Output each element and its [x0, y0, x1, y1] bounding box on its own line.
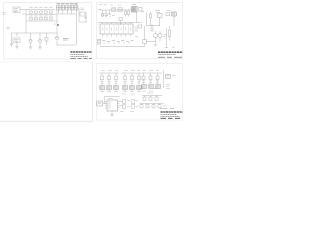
wire top rail A	[99, 72, 119, 74]
cell X1 row	[120, 100, 131, 108]
cap bank C47	[158, 104, 161, 108]
sheet3 right edge	[92, 62, 94, 121]
label top right corner	[75, 4, 78, 6]
wire transformer stubs	[102, 90, 139, 92]
node junction A	[57, 24, 59, 26]
cap bank C41	[143, 96, 146, 101]
ground gnd41	[110, 115, 113, 117]
resistor R3	[44, 7, 47, 13]
wire right drop	[144, 26, 146, 47]
transistor Q22	[158, 31, 162, 42]
transformer T41	[100, 86, 105, 90]
connector J1	[13, 7, 20, 13]
cap bank C46	[152, 104, 155, 108]
capacitor C23	[150, 12, 152, 20]
voltage regulator U2	[13, 38, 20, 43]
transformer T1	[132, 7, 138, 13]
relay K21	[172, 12, 176, 16]
cap bank C43	[155, 96, 158, 101]
wire row2 rail	[142, 95, 162, 97]
filter F1	[101, 73, 104, 85]
label right text	[167, 10, 171, 12]
label under d22	[135, 36, 139, 38]
ground gnd2	[38, 47, 42, 49]
SHEET1	[3, 3, 92, 60]
wire mid rail	[12, 32, 58, 34]
label top refs	[99, 4, 121, 7]
transformer T46	[137, 86, 142, 90]
resistor R5	[34, 16, 37, 20]
label U4 text	[155, 11, 160, 13]
wire top rail	[100, 9, 135, 11]
transformer T43	[114, 86, 119, 90]
resistor R26	[169, 26, 171, 41]
transistor Q21	[154, 31, 158, 42]
label net1	[63, 39, 69, 41]
label pin numbers row2	[103, 42, 130, 44]
label net2 text	[101, 14, 115, 17]
ic U3	[100, 23, 133, 37]
diode D23	[166, 13, 170, 16]
transistor Q1	[29, 33, 32, 47]
capacitor C5	[80, 8, 85, 16]
text right of IC	[135, 27, 139, 31]
ground gnd0	[15, 46, 18, 48]
cell X2 row	[132, 100, 139, 108]
diode D21	[139, 8, 143, 12]
transformer T44	[123, 86, 128, 90]
wire vert right	[163, 70, 165, 88]
wire top rail B	[121, 72, 162, 74]
transformer T42	[107, 86, 112, 90]
SHEET4	[97, 64, 183, 121]
label net w1	[7, 28, 11, 30]
label under row1	[100, 91, 141, 93]
label T1	[132, 4, 136, 6]
title block T1	[70, 52, 92, 58]
ground gnd1	[29, 47, 33, 49]
cap bank C44	[140, 104, 143, 108]
diode D22	[138, 25, 142, 28]
resistor R24	[128, 10, 130, 17]
filter F8	[149, 73, 152, 84]
wire row1	[26, 14, 57, 16]
label plus text	[141, 11, 144, 13]
label under J1	[22, 13, 26, 15]
label above cells	[122, 93, 135, 95]
label edge net	[3, 13, 6, 14]
SHEET2	[97, 3, 183, 59]
capacitor C21	[108, 10, 110, 17]
label under row1 right	[142, 85, 170, 92]
transformer T47	[142, 85, 147, 89]
transformer T49	[156, 85, 161, 89]
wire row3 rail	[140, 103, 164, 105]
relay K4	[70, 5, 73, 10]
relay K2	[61, 5, 64, 10]
filter F9	[156, 73, 159, 84]
filter F7	[142, 73, 145, 84]
ic U4	[158, 14, 163, 17]
wire horizontal	[146, 25, 160, 27]
relay K5	[75, 5, 78, 10]
wire right bus	[75, 14, 77, 45]
connector J21	[97, 40, 101, 45]
wire bus above IC	[98, 22, 142, 24]
transistor Q3	[55, 33, 58, 45]
label pin numbers row	[102, 40, 134, 42]
inductor L1	[112, 8, 116, 12]
capacitor C22	[119, 18, 123, 26]
ic U42	[105, 100, 120, 111]
resistor R21	[102, 10, 104, 17]
filter F4	[124, 73, 127, 85]
connector J41	[97, 101, 103, 106]
filter F5	[131, 73, 134, 85]
sheet3 bottom edge	[0, 120, 93, 122]
label relay row refs	[57, 2, 78, 4]
ic U41	[166, 75, 171, 79]
wire vert x166	[166, 28, 168, 47]
wire j41 to u42	[103, 97, 120, 104]
title block T2	[158, 48, 183, 58]
filter F2	[108, 73, 111, 85]
wire c5	[79, 8, 87, 22]
wire bottom	[57, 44, 76, 46]
wire transformer drop	[136, 12, 138, 23]
filter F3	[115, 73, 118, 85]
label sheet2 corner text	[98, 9, 101, 11]
transformer T48	[149, 85, 154, 89]
label right u41	[172, 75, 176, 77]
resistor R25	[143, 40, 146, 44]
label under c23	[150, 24, 154, 26]
resistor R22	[105, 10, 107, 17]
capacitor C3	[39, 16, 42, 20]
resistor R4	[29, 16, 32, 20]
diode D2	[45, 33, 48, 45]
cap bank C42	[149, 96, 152, 101]
label row1 refs	[101, 70, 159, 72]
capacitor C2	[49, 7, 52, 13]
wire J1 to bus	[20, 10, 26, 34]
label row2 refs	[147, 92, 153, 94]
cap bank C45	[146, 104, 149, 108]
diode D1	[85, 17, 88, 19]
label mid text	[139, 88, 170, 90]
wire vert x146	[146, 12, 148, 26]
node bus vertical	[56, 10, 58, 33]
crystal X1	[118, 8, 122, 12]
transistor Q2	[38, 33, 41, 47]
title block T4	[160, 109, 183, 119]
ground gnd21	[154, 45, 157, 47]
SHEET3	[0, 62, 93, 121]
resistor R1	[29, 7, 32, 13]
wire row2	[26, 20, 57, 22]
wire u2	[16, 33, 18, 46]
filter F6	[138, 73, 141, 85]
label under cells	[120, 111, 134, 113]
capacitor C4	[49, 16, 52, 20]
label above u42	[108, 98, 113, 100]
relay K3	[66, 5, 69, 10]
wire top rail	[26, 9, 55, 11]
wire relay rail	[56, 7, 78, 9]
capacitor C24	[151, 26, 153, 32]
capacitor C1	[39, 7, 42, 13]
wire bottom bus	[100, 46, 145, 48]
wire verticals right	[151, 16, 175, 26]
resistor R2	[34, 7, 37, 13]
wire relay drops	[58, 10, 76, 14]
resistor R6	[44, 16, 47, 20]
resistor R23	[125, 10, 127, 17]
wire u42 bottom	[111, 111, 113, 115]
sheet3 top edge	[0, 61, 93, 63]
wire bottom net	[146, 42, 156, 44]
label near junction	[54, 23, 57, 25]
label right of row3	[163, 105, 167, 107]
relay K1	[57, 5, 60, 10]
label q text	[164, 35, 167, 37]
capacitor C0	[10, 33, 13, 47]
transformer T45	[130, 86, 135, 90]
